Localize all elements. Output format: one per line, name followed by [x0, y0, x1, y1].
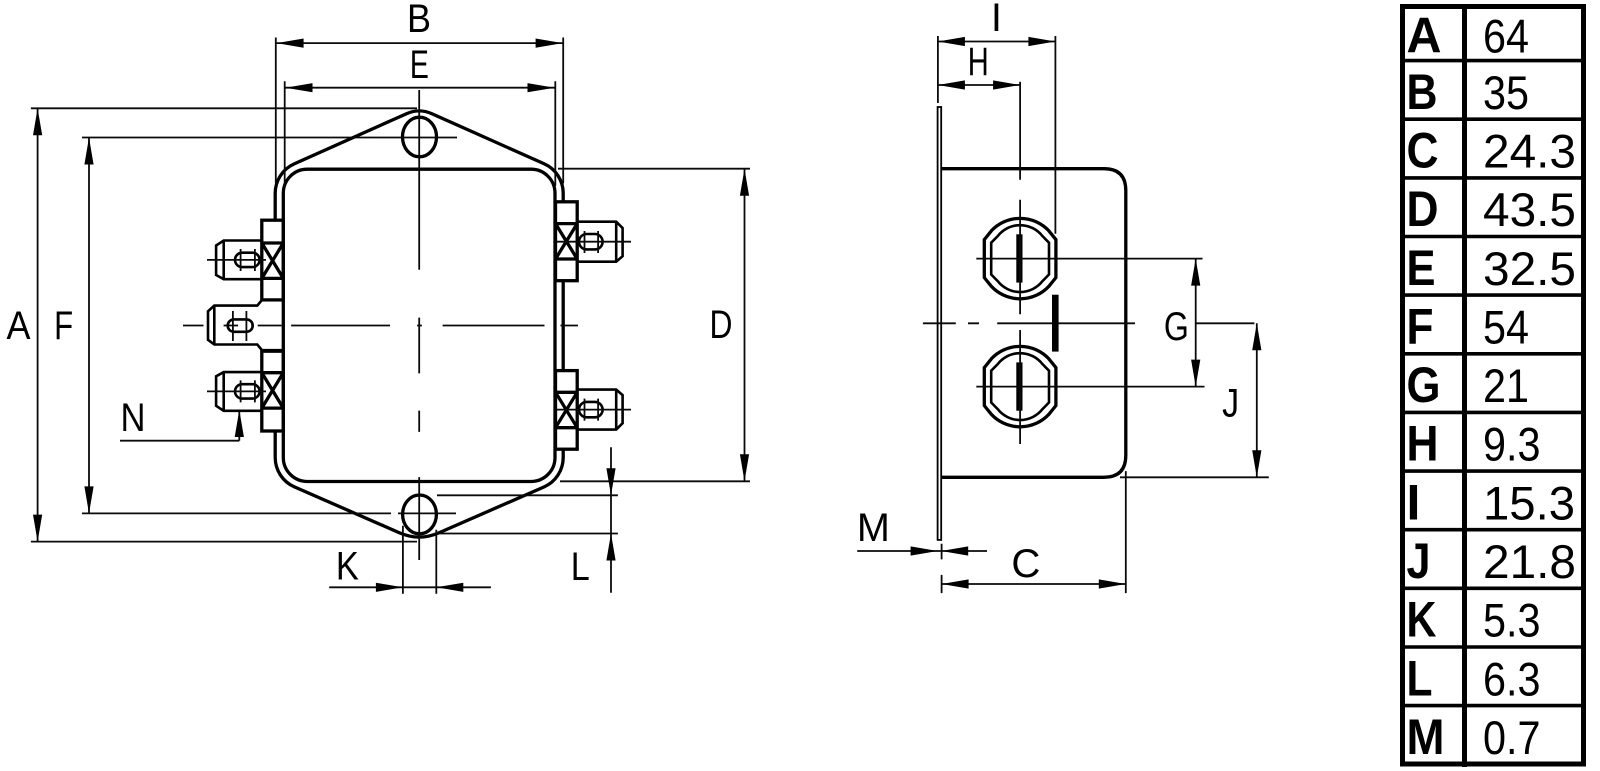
- right top block with X: [556, 202, 578, 281]
- svg-text:M: M: [1407, 709, 1445, 765]
- dimension A: [31, 108, 417, 541]
- svg-text:E: E: [410, 43, 429, 87]
- dimension C: [942, 471, 1126, 593]
- dimension M: [857, 544, 987, 560]
- bottom connector inner ring: [991, 353, 1049, 420]
- bottom connector crosshair: [976, 330, 1204, 444]
- svg-text:B: B: [407, 0, 431, 41]
- svg-text:D: D: [710, 303, 733, 347]
- svg-text:15.3: 15.3: [1483, 476, 1575, 529]
- svg-text:J: J: [1222, 382, 1239, 426]
- dimension E: [285, 81, 556, 186]
- left bottom block with X: [262, 351, 284, 431]
- svg-text:9.3: 9.3: [1483, 418, 1541, 471]
- svg-text:F: F: [54, 304, 73, 348]
- dimension D: [558, 169, 750, 482]
- dimension F: [82, 138, 456, 514]
- top hole crosshair: [381, 137, 457, 139]
- vertical center line: [418, 90, 420, 560]
- svg-text:43.5: 43.5: [1483, 183, 1576, 236]
- svg-text:24.3: 24.3: [1483, 125, 1576, 178]
- svg-text:64: 64: [1483, 10, 1529, 63]
- mounting plate outline top (triangular tab with slopes): [275, 111, 563, 220]
- dimension J: [1120, 323, 1269, 477]
- svg-text:M: M: [857, 506, 890, 550]
- svg-text:0.7: 0.7: [1483, 711, 1541, 764]
- dimension G: [1195, 259, 1197, 387]
- bottom connector blade: [1016, 362, 1022, 410]
- svg-text:B: B: [1407, 64, 1438, 120]
- svg-text:C: C: [1407, 123, 1439, 179]
- dimension H: [938, 84, 1020, 86]
- svg-text:35: 35: [1483, 66, 1529, 119]
- horizontal center line: [183, 325, 578, 327]
- svg-text:6.3: 6.3: [1483, 652, 1541, 705]
- right bottom block with X: [556, 371, 578, 450]
- svg-text:N: N: [121, 396, 146, 440]
- svg-text:5.3: 5.3: [1483, 594, 1541, 647]
- top mounting hole: [403, 117, 437, 157]
- filter body rounded rectangle: [283, 169, 555, 481]
- top connector outer ring: [984, 218, 1056, 298]
- svg-text:D: D: [1407, 181, 1439, 237]
- svg-text:I: I: [1407, 474, 1421, 530]
- terminal top-right: [577, 222, 622, 262]
- terminal bottom-left: [216, 372, 262, 411]
- body side view: [941, 169, 1126, 478]
- svg-text:21.8: 21.8: [1483, 535, 1576, 588]
- ground blade: [1052, 295, 1059, 352]
- terminal middle-left: [208, 300, 283, 350]
- svg-text:J: J: [1407, 533, 1431, 589]
- table column divider: [1462, 4, 1467, 767]
- main center line: [923, 322, 1255, 324]
- flange plate (thin): [938, 107, 942, 540]
- bottom connector outer ring: [984, 346, 1056, 426]
- svg-text:G: G: [1407, 357, 1441, 413]
- svg-text:G: G: [1164, 305, 1189, 349]
- svg-text:54: 54: [1483, 301, 1529, 354]
- svg-text:A: A: [7, 304, 31, 348]
- svg-text:C: C: [1011, 542, 1040, 586]
- table row lines: [1405, 61, 1584, 706]
- dimension K: [329, 526, 491, 594]
- terminal top-left: [216, 241, 262, 280]
- svg-text:32.5: 32.5: [1483, 242, 1576, 295]
- svg-text:K: K: [1407, 592, 1437, 648]
- svg-text:A: A: [1407, 8, 1442, 64]
- svg-text:H: H: [968, 40, 989, 84]
- svg-text:K: K: [336, 545, 359, 589]
- dimension I: [938, 36, 1056, 234]
- svg-text:I: I: [991, 0, 1002, 40]
- mounting plate rail right: [562, 200, 565, 450]
- svg-text:L: L: [571, 545, 590, 589]
- mounting plate outline bottom: [275, 431, 563, 537]
- top connector inner ring: [991, 225, 1049, 292]
- svg-text:E: E: [1407, 240, 1436, 296]
- table outer border: [1403, 7, 1584, 765]
- svg-text:L: L: [1407, 650, 1433, 706]
- top connector blade: [1016, 234, 1022, 282]
- svg-text:F: F: [1407, 299, 1434, 355]
- terminal bottom-right: [577, 390, 622, 430]
- top connector crosshair: [976, 82, 1202, 315]
- svg-text:H: H: [1407, 416, 1439, 472]
- svg-text:21: 21: [1483, 359, 1529, 412]
- bottom mounting hole: [403, 495, 437, 534]
- dimension B: [276, 38, 563, 184]
- left top block with X: [262, 220, 284, 300]
- dimension L: [437, 447, 618, 592]
